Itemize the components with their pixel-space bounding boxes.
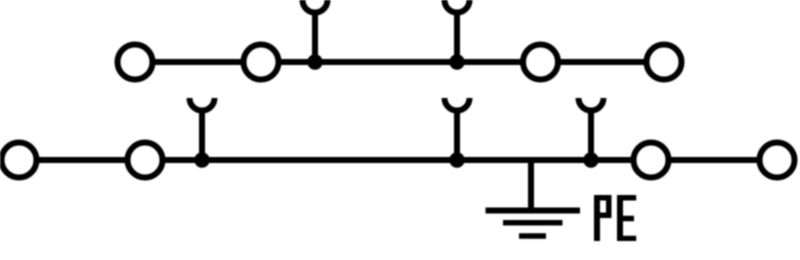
plug tap symbol top 2 (445, 0, 470, 62)
junction top A (307, 54, 322, 69)
terminal circle top 1 (118, 45, 153, 80)
terminal circle top 4 (647, 45, 682, 80)
terminal circle bottom 2 (128, 143, 163, 178)
terminal circle bottom 1 (2, 143, 37, 178)
junction bottom B (449, 152, 464, 167)
terminal circle bottom 3 (634, 143, 669, 178)
plug tap symbol top 1 (303, 0, 328, 62)
plug tap symbol mid 1 (190, 98, 215, 160)
junction top B (449, 54, 464, 69)
terminal circle top 3 (523, 45, 558, 80)
plug tap symbol mid 2 (445, 98, 470, 160)
ground PE symbol (486, 160, 581, 236)
junction dots (194, 54, 598, 167)
plug tap symbol mid 3 (579, 98, 604, 160)
wire top rail (135, 59, 664, 65)
junction bottom C (583, 152, 598, 167)
junction bottom A (194, 152, 209, 167)
terminal circle bottom 4 (760, 143, 795, 178)
wire bottom rail (19, 157, 777, 163)
terminal circle top 2 (244, 45, 279, 80)
label PE (594, 195, 636, 241)
